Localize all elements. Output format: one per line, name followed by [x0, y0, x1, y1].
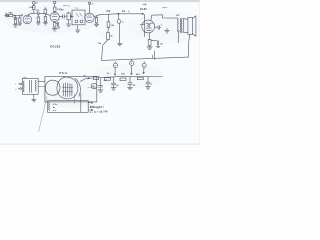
node HT1: [33, 1, 38, 5]
svg-text:→voltages !: →voltages !: [87, 105, 105, 110]
node C: [142, 62, 146, 74]
ground stray: [76, 25, 80, 32]
svg-text:27k: 27k: [106, 11, 111, 13]
capacitor filter 3: [146, 77, 152, 90]
tone box module: [72, 7, 85, 25]
capacitor C3 cathode bypass: [56, 22, 60, 28]
capacitor filter 2: [128, 77, 136, 90]
wire blob to heater box: [80, 94, 82, 112]
resistor R1 68k: [9, 13, 14, 17]
ground: [13, 25, 18, 27]
resistor cathode EL84: [148, 33, 151, 47]
resistor rail 10k: [120, 74, 126, 81]
junction mark: [21, 14, 22, 16]
wire T2 to PSU upper: [38, 80, 45, 82]
svg-text:P.S.U.: P.S.U.: [59, 71, 67, 75]
svg-text:10k: 10k: [121, 74, 126, 76]
stray pencil line: [39, 97, 47, 132]
capacitor C smoothing at junction: [98, 79, 102, 90]
capacitor screen bypass: [155, 24, 162, 29]
speaker LS1: [188, 16, 196, 36]
svg-text:ECC81: ECC81: [50, 45, 60, 49]
wire HT bus long: [102, 57, 189, 60]
heater transformer box: [48, 101, 88, 113]
wire secondary lower: [88, 87, 96, 89]
ground: [117, 43, 122, 45]
ground: [52, 29, 57, 31]
wire secondary bottom: [183, 31, 188, 34]
wire input lead: [5, 15, 6, 17]
PSU chassis box: [45, 77, 97, 102]
wire T2 to PSU lower: [38, 85, 45, 87]
svg-text:p.t.: p.t.: [24, 76, 28, 79]
wire V2 anode to node: [88, 2, 93, 13]
svg-text:O/P: O/P: [176, 15, 180, 17]
triode V1a ECC81: [23, 15, 32, 24]
wire blob inner drop: [74, 94, 76, 103]
triode V2a ECC81: [85, 13, 94, 22]
mains transformer T2 box: [22, 76, 38, 94]
wire smoothing rail: [81, 77, 163, 82]
capacitor cathode bypass 25u: [151, 41, 164, 48]
wire secondary to speaker: [183, 18, 188, 21]
capacitor C2 + resistor chain to ground: [14, 16, 17, 25]
ground: [147, 47, 152, 49]
T2 primary winding: [22, 81, 25, 92]
wire grid feed: [140, 13, 145, 36]
wire speaker return: [188, 34, 190, 57]
svg-text:1m: 1m: [122, 11, 126, 13]
wire anode to transformer: [151, 15, 178, 21]
paper background: [0, 0, 200, 145]
svg-text:8: 8: [151, 84, 152, 86]
svg-text:ht: ht: [36, 1, 38, 4]
T2 core: [30, 80, 32, 92]
mains transformer blob: [45, 77, 80, 99]
scribble note: [63, 5, 69, 7]
tick mark: [127, 11, 130, 13]
resistor dropper chain: [98, 14, 115, 60]
wire V1 anode up: [27, 13, 34, 15]
wire cathode to bus: [154, 51, 156, 60]
svg-text:100k: 100k: [29, 7, 35, 9]
pentode V3 EL84: [142, 20, 155, 33]
T2 secondary winding: [34, 80, 37, 91]
svg-text:EL84: EL84: [140, 8, 147, 11]
svg-text:4k7: 4k7: [136, 73, 141, 76]
transformer T1 core: [180, 18, 181, 32]
node HT2: [54, 1, 56, 7]
resistor R4 anode load 100k: [54, 7, 63, 12]
capacitor filter 1: [111, 77, 119, 90]
svg-text:n: n: [15, 89, 16, 91]
choke L1 on rail: [84, 75, 99, 79]
capacitor C5 decoupling: [117, 14, 124, 43]
node A: [113, 62, 117, 76]
svg-text:(v4): (v4): [143, 3, 147, 6]
svg-text:.1: .1: [160, 24, 162, 26]
arrow on rail: [88, 77, 90, 79]
ground: [98, 90, 103, 92]
resistor rail 1k: [105, 73, 111, 80]
resistor V2 cathode + ground: [94, 16, 99, 27]
input jack J1: [5, 13, 8, 17]
capacitor reservoir 40u blob: [91, 83, 97, 89]
grid leak resistor to ground: [43, 14, 48, 25]
node B: [130, 60, 134, 75]
resistor R2 vertical to ground: [18, 15, 22, 25]
heater output stubs: [88, 102, 94, 111]
transformer T1 secondary winding: [182, 19, 185, 33]
resistor under cap to ground: [37, 15, 41, 25]
junction node: [118, 13, 119, 14]
potentiometer VR1: [67, 12, 73, 20]
node junction dot: [14, 15, 15, 16]
svg-text:a.c.: a.c.: [53, 110, 57, 112]
resistor R3 anode load: [29, 6, 35, 14]
svg-text:6.3v: 6.3v: [53, 104, 58, 106]
tick on HT bus: [151, 55, 153, 58]
heater winding: [48, 102, 51, 111]
wire to V2 grid: [39, 13, 50, 15]
resistor R5 cathode: [53, 22, 56, 29]
ground centre tap: [165, 28, 170, 33]
wire V2 out: [94, 15, 99, 17]
wire R1 to V1 grid: [13, 14, 23, 16]
wire primary bottom: [177, 32, 179, 42]
svg-text:ht: ht: [92, 3, 94, 6]
svg-text:68k: 68k: [9, 13, 14, 15]
svg-text:50: 50: [133, 85, 135, 87]
ground below pot: [66, 20, 71, 27]
mains terminals: [15, 83, 21, 91]
svg-text:50: 50: [116, 85, 118, 87]
capacitor C4 coupling: [59, 10, 67, 19]
capacitor C1 coupling: [34, 10, 40, 15]
resistor rail 4k7: [136, 73, 143, 80]
svg-text:o.p.t: o.p.t: [162, 6, 167, 9]
triode V1b ECC81: [50, 12, 59, 21]
svg-text:t.c.: t.c.: [76, 7, 80, 10]
T2 ground lead: [32, 94, 36, 102]
svg-text:sec: sec: [177, 31, 180, 33]
resistor above wire: [44, 8, 47, 14]
wire HT feed rail top: [100, 13, 144, 16]
transformer T1 primary winding: [177, 19, 180, 33]
